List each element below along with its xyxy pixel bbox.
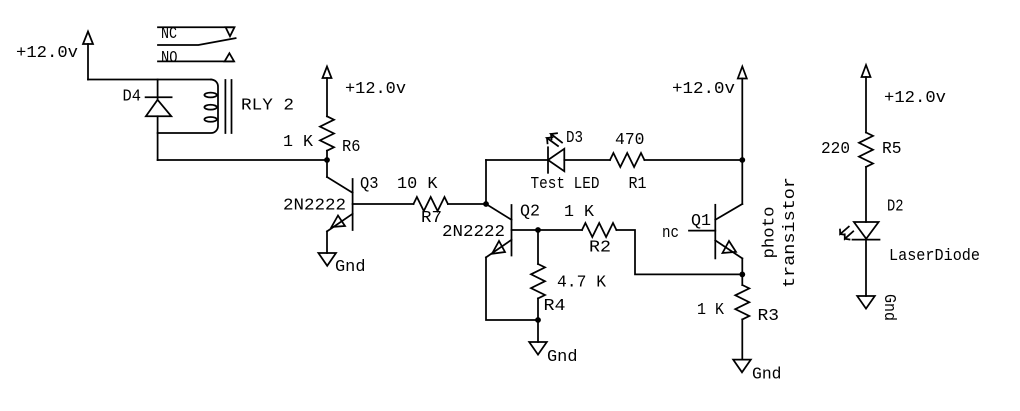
power +12.0v arrow (left) [16,32,93,64]
svg-text:Q2: Q2 [520,203,540,222]
wire: R3 to ground [741,319,743,359]
svg-text:R6: R6 [342,138,361,157]
svg-text:Gnd: Gnd [547,348,578,367]
svg-text:1 K: 1 K [564,203,595,222]
ground (R4) [529,342,577,367]
power +12.0v arrow (R6) [323,67,407,100]
svg-text:1 K: 1 K [283,133,314,152]
wire: D4 to bottom rail [157,116,159,160]
svg-text:+12.0v: +12.0v [672,80,735,99]
node: R4 bottom junction [535,317,541,323]
svg-text:R3: R3 [758,307,780,326]
svg-text:Gnd: Gnd [752,366,782,385]
wire: Q3 base to R7 [353,203,414,205]
svg-text:R4: R4 [544,297,566,316]
svg-text:R7: R7 [421,209,442,228]
wire: left +12 down to top rail [87,44,89,80]
relay contact common pivot [158,38,236,45]
ground (R3) [733,360,781,385]
svg-text:D2: D2 [887,198,904,217]
node: Q2 base / R4 junction [535,227,541,233]
power +12.0v arrow (R5) [862,65,947,108]
wire: D3 to R1 [564,159,610,161]
wire: R4 to bottom node [537,298,539,320]
wire: node to ground [537,320,539,342]
wire: node down to Q1 collector [741,160,743,204]
wire: R1 to +12 column [644,159,742,161]
resistor R1 470 [610,131,647,194]
svg-text:10 K: 10 K [397,175,438,194]
svg-text:RLY 2: RLY 2 [241,97,294,116]
wire: R7 to Q2 collector node [448,203,486,205]
laser diode D2 [840,198,980,267]
transistor Q3 2N2222 [283,160,379,231]
svg-text:Test LED: Test LED [531,175,600,194]
svg-text:Gnd: Gnd [335,258,366,277]
svg-text:220: 220 [821,140,850,159]
ground (laser) [857,294,898,321]
node: Q1 emitter / R2 / R3 junction [739,272,745,278]
svg-text:nc: nc [662,224,679,243]
node: Q2 collector junction [483,201,489,207]
wire: R6 to node [326,151,328,160]
svg-text:Q3: Q3 [360,175,379,194]
svg-text:1 K: 1 K [697,301,725,320]
wire: relay bottom rail to R6 node [158,159,327,161]
svg-text:2N2222: 2N2222 [283,197,346,216]
svg-text:photo: photo [761,207,780,259]
wire: LED branch from Q2 collector node [486,159,548,161]
wire: D2 to ground [865,240,867,296]
transistor Q1 photo transistor [662,204,742,258]
relay RLY 2 coil box [158,80,294,134]
LED D3 Test LED [531,129,600,194]
transistor Q2 2N2222 [442,203,540,258]
resistor R3 1K [697,285,779,326]
svg-text:470: 470 [615,131,645,150]
wire: +12 to R5 [865,77,867,133]
svg-text:Gnd: Gnd [879,294,898,321]
wire: +12 to R6 [326,78,328,116]
svg-text:Q1: Q1 [691,212,711,231]
svg-text:R5: R5 [882,140,902,159]
svg-text:R1: R1 [629,175,647,194]
svg-text:+12.0v: +12.0v [884,89,946,108]
resistor R7 10K [397,175,448,228]
wire: base node down to R4 [537,230,539,264]
svg-text:D4: D4 [123,88,142,107]
resistor R4 4.7K [531,264,607,316]
svg-text:D3: D3 [566,129,583,148]
node: R6/relay junction [324,157,330,163]
relay contact NO line [158,49,234,68]
svg-text:NC: NC [161,25,177,44]
label: photo transistor (rotated) [761,177,801,288]
wire: Q1 emitter down [741,258,743,274]
resistor R2 1K [564,203,616,258]
wire: Q2 emitter down and over to R4 foot [486,257,538,320]
wire: R2 right, down, and over to R3 node [616,230,742,274]
svg-text:R2: R2 [589,239,611,258]
wire: Q2 base to R2 [512,229,583,231]
power +12.0v arrow (Q1) [672,67,747,100]
node: R1 / Q1 collector junction [739,157,745,163]
svg-text:2N2222: 2N2222 [442,223,505,242]
svg-text:transistor: transistor [781,177,800,288]
wire: node to R3 [741,274,743,285]
svg-text:+12.0v: +12.0v [16,44,78,63]
wire: Q3 emitter down [326,231,328,253]
resistor R6 1K [283,116,361,157]
wire: +12 down to LED node [741,79,743,161]
svg-text:+12.0v: +12.0v [345,80,406,99]
relay contact NC line [158,25,235,44]
wire: Q2 collector up to LED branch [485,160,487,204]
diode D4 [123,80,172,117]
wire: R5 to D2 [865,167,867,222]
svg-text:NO: NO [161,49,178,68]
resistor R5 220 [821,133,902,167]
svg-text:4.7 K: 4.7 K [557,274,607,293]
svg-text:LaserDiode: LaserDiode [889,247,980,266]
ground (Q3) [318,253,365,277]
wire: top rail to relay [88,79,211,81]
